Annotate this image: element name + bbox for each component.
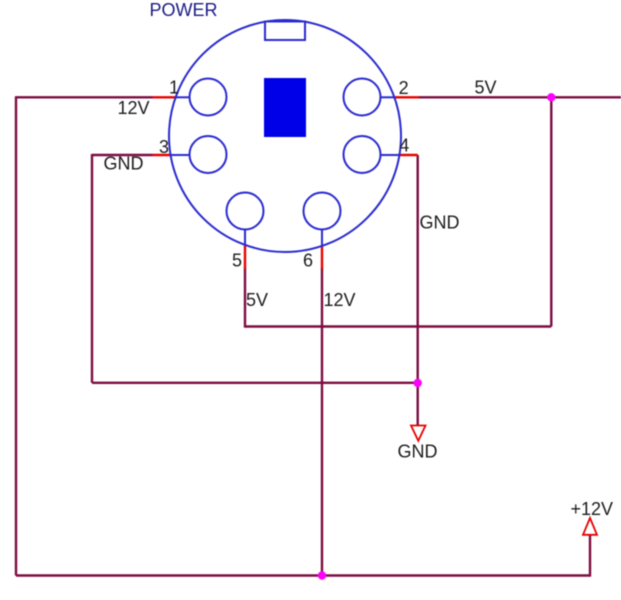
svg-text:+12V: +12V: [571, 499, 614, 519]
svg-text:1: 1: [169, 78, 179, 98]
junction dot net 12V bottom: [318, 571, 326, 579]
svg-text:6: 6: [303, 251, 313, 271]
pin 2 red pin wire: [394, 96, 419, 98]
svg-text:POWER: POWER: [150, 0, 218, 20]
wire net 12V bottom horizontal: [16, 574, 590, 576]
connector key notch rectangle: [265, 22, 305, 41]
svg-text:5: 5: [232, 251, 242, 271]
wire net 5V right vertical: [550, 97, 552, 326]
pin 2 blue stub: [380, 96, 395, 98]
pin 6 red pin wire: [321, 246, 323, 269]
junction dot net GND: [414, 379, 422, 387]
pin 3 circle: [190, 136, 227, 173]
connector center shield rectangle: [264, 78, 306, 137]
pin 6 circle: [304, 193, 341, 230]
wire net 12V vertical from pin 6: [321, 268, 323, 576]
pin 5 circle: [227, 193, 264, 230]
wire net 5V middle horizontal: [245, 325, 551, 327]
svg-text:3: 3: [159, 137, 169, 157]
pin 6 blue stub: [321, 229, 323, 247]
svg-text:GND: GND: [398, 442, 438, 462]
pin 5 red pin wire: [244, 245, 246, 269]
svg-text:12V: 12V: [118, 98, 150, 118]
svg-text:4: 4: [399, 136, 409, 156]
svg-text:5V: 5V: [246, 290, 268, 310]
wire net GND left vertical: [91, 154, 93, 383]
wire net 5V top horizontal from pin 2 to right edge: [419, 96, 621, 98]
wire net 12V left vertical: [15, 96, 17, 575]
wire net 12V vertical from +12V symbol: [589, 535, 591, 577]
ground symbol GND: [411, 426, 426, 441]
svg-text:5V: 5V: [475, 78, 497, 98]
power symbol +12V: [583, 518, 597, 535]
svg-text:2: 2: [399, 78, 409, 98]
wire net 12V left horizontal from pin 1: [16, 96, 153, 98]
pin 2 circle: [344, 79, 381, 116]
pin 3 blue stub: [171, 154, 190, 156]
pin 1 blue stub: [176, 96, 190, 98]
connector J1 POWER outline circle: [169, 20, 401, 252]
junction dot net 5V: [547, 93, 555, 101]
pin 3 red pin wire: [153, 154, 172, 156]
wire net GND middle horizontal: [92, 382, 418, 384]
pin 1 red pin wire: [153, 96, 177, 98]
wire net 5V vertical from pin 5: [244, 268, 246, 328]
svg-text:GND: GND: [104, 154, 144, 174]
pin 1 circle: [190, 79, 227, 116]
svg-text:12V: 12V: [324, 290, 356, 310]
wire net GND vertical from pin 4 to ground symbol: [417, 155, 419, 425]
pin 4 blue stub: [380, 154, 400, 156]
wire net GND horizontal from pin 3: [92, 154, 153, 156]
pin 5 blue stub: [244, 229, 246, 246]
svg-text:GND: GND: [420, 213, 460, 233]
pin 4 red pin wire: [400, 154, 418, 156]
pin 4 circle: [344, 136, 381, 173]
